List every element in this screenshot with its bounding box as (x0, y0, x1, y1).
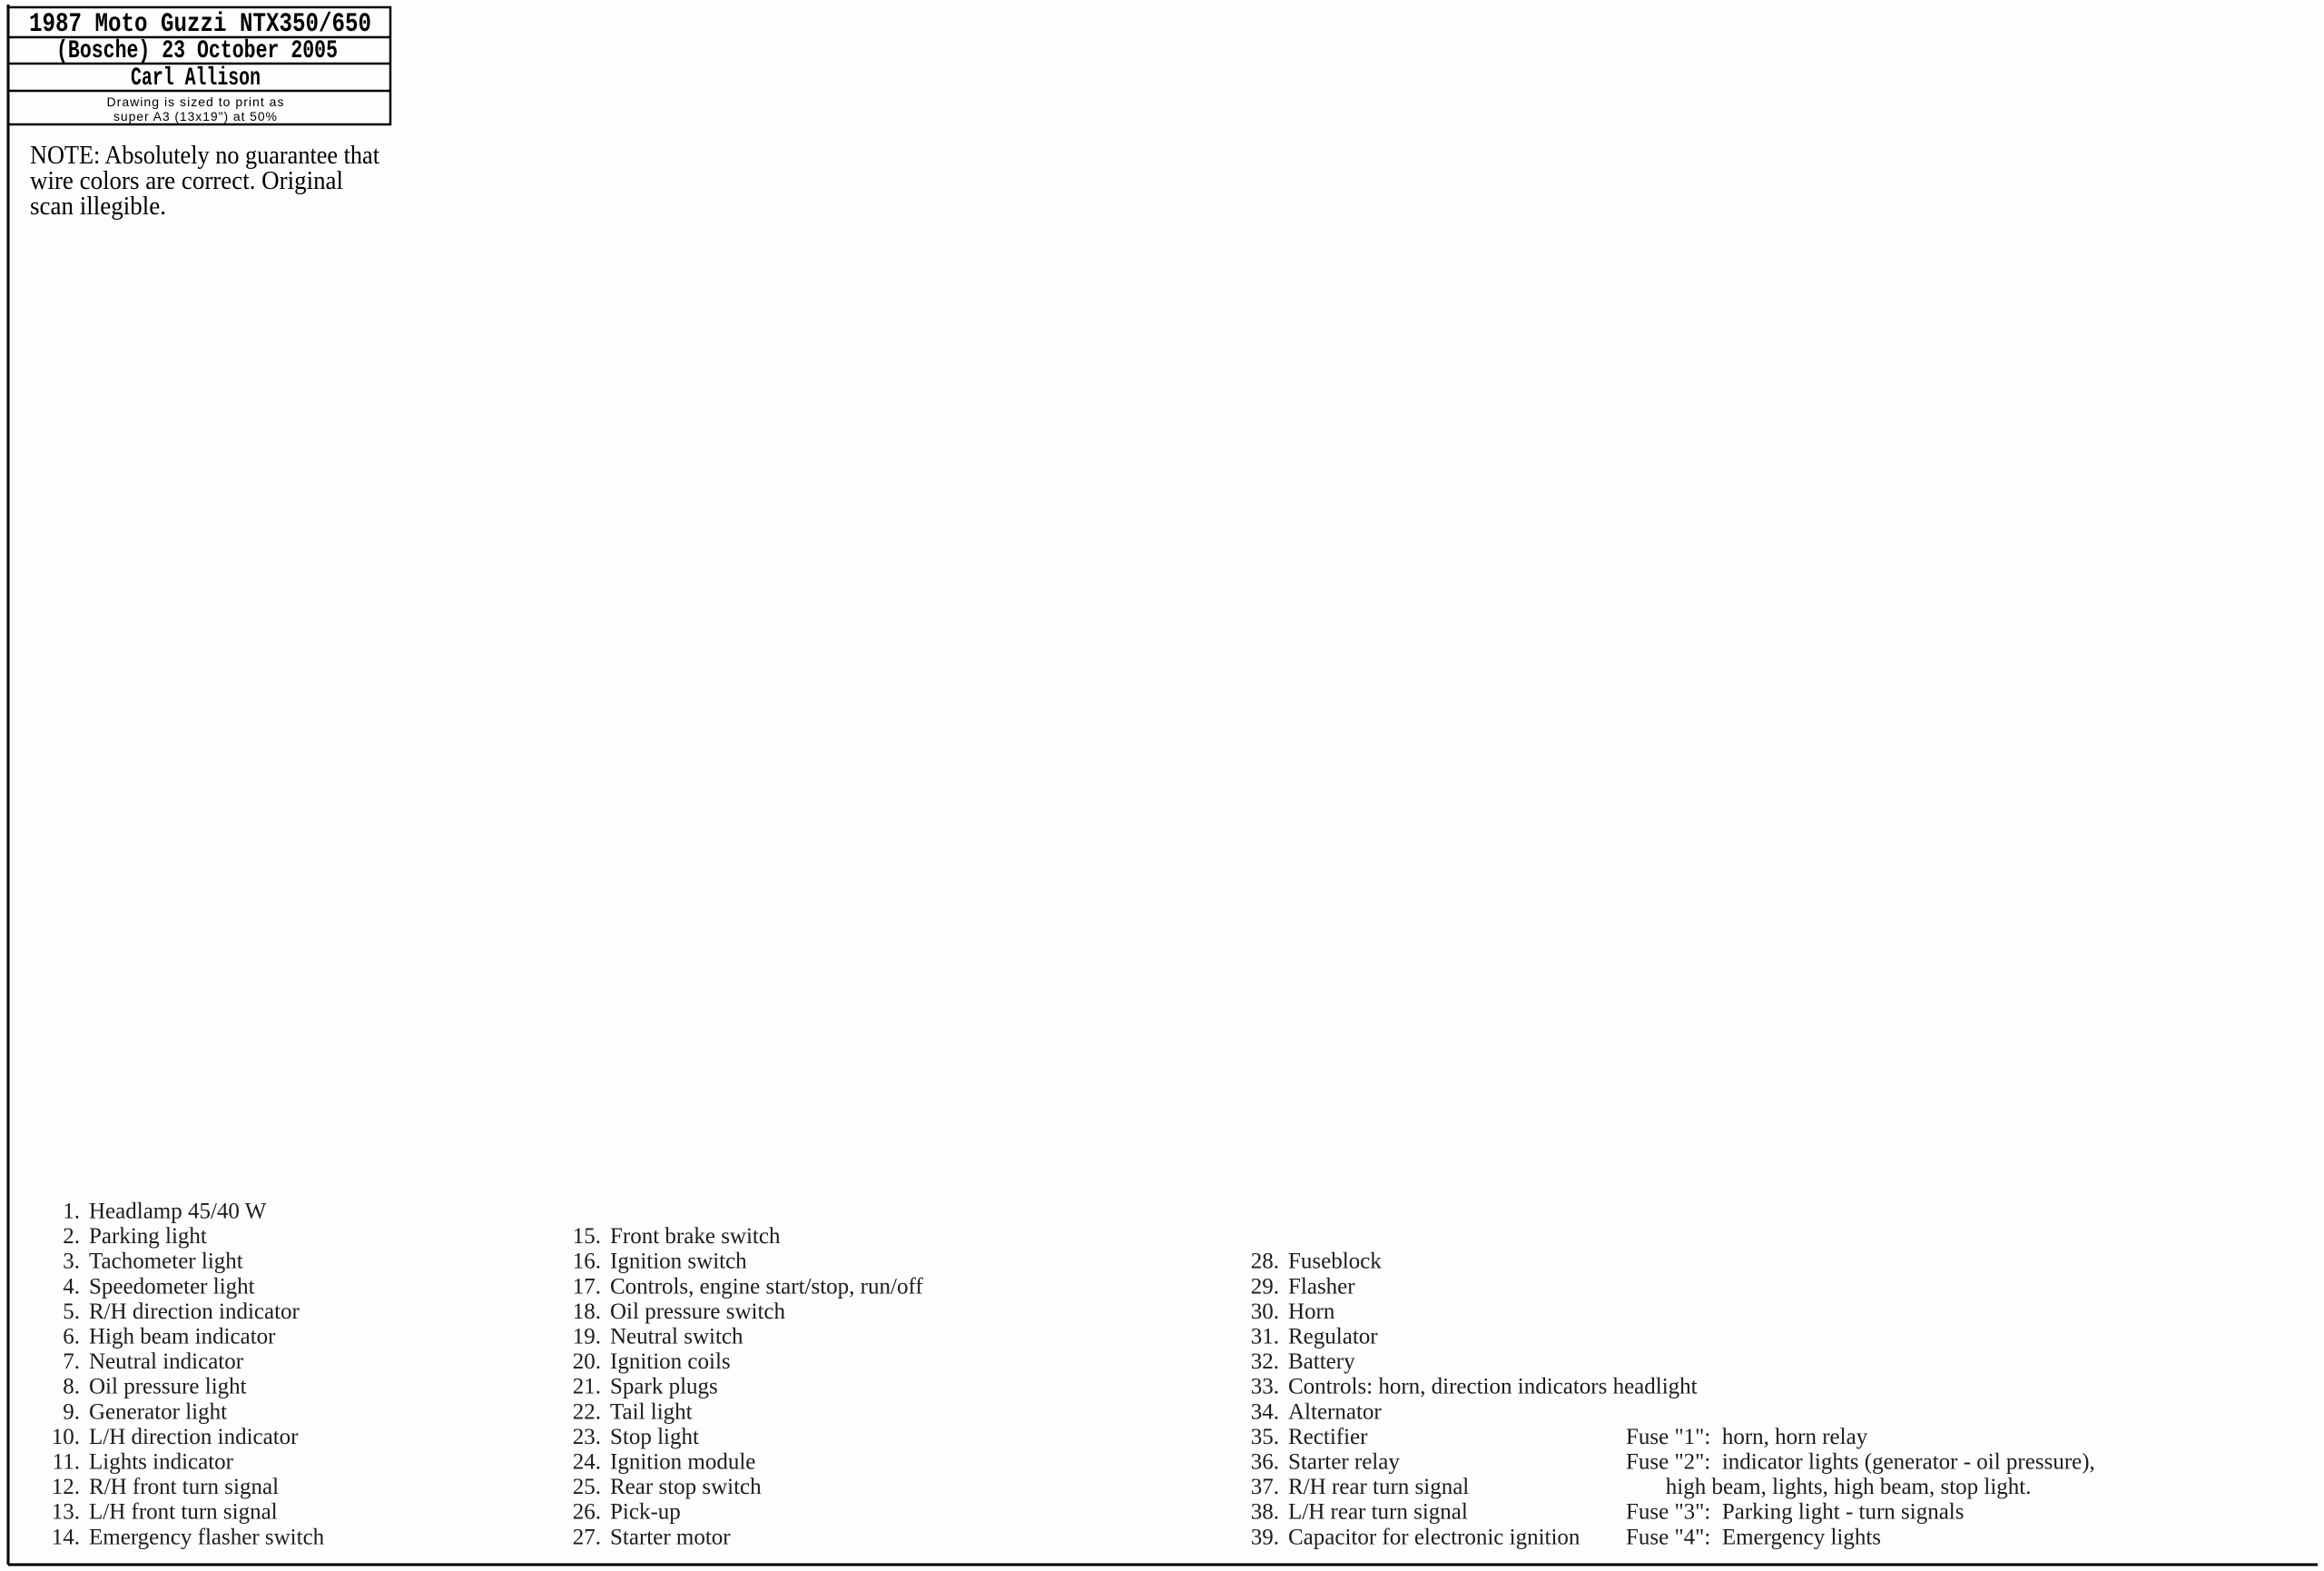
svg-text:Fuse "1": horn, horn relay: Fuse "1": horn, horn relay (1626, 1425, 1868, 1449)
svg-text:Drawing is sized to print as: Drawing is sized to print as (107, 94, 284, 109)
svg-text:Fuse "4": Emergency lights: Fuse "4": Emergency lights (1626, 1525, 1881, 1549)
svg-text:Oil pressure light: Oil pressure light (89, 1375, 247, 1399)
svg-text:1987 Moto Guzzi NTX350/650: 1987 Moto Guzzi NTX350/650 (29, 9, 371, 40)
svg-text:18.: 18. (573, 1299, 601, 1324)
svg-text:Alternator: Alternator (1288, 1399, 1382, 1424)
svg-text:Tachometer light: Tachometer light (89, 1250, 243, 1274)
svg-text:L/H direction indicator: L/H direction indicator (89, 1425, 299, 1449)
svg-text:Rear stop switch: Rear stop switch (610, 1475, 762, 1499)
svg-text:Carl Allison: Carl Allison (131, 64, 261, 93)
svg-text:19.: 19. (573, 1325, 601, 1349)
svg-text:Neutral switch: Neutral switch (610, 1325, 743, 1349)
svg-text:39.: 39. (1251, 1525, 1279, 1549)
svg-text:Controls: horn, direction indi: Controls: horn, direction indicators hea… (1288, 1375, 1698, 1399)
svg-text:4.: 4. (63, 1274, 80, 1299)
svg-text:Front brake switch: Front brake switch (610, 1224, 781, 1249)
svg-text:27.: 27. (573, 1525, 601, 1549)
svg-text:37.: 37. (1251, 1475, 1279, 1499)
svg-text:Capacitor for electronic ignit: Capacitor for electronic ignition (1288, 1525, 1581, 1549)
svg-text:Neutral indicator: Neutral indicator (89, 1349, 244, 1374)
svg-text:20.: 20. (573, 1349, 601, 1374)
svg-text:high beam, lights, high beam,: high beam, lights, high beam, stop light… (1626, 1475, 2032, 1499)
svg-text:Starter motor: Starter motor (610, 1525, 731, 1549)
svg-text:R/H front turn signal: R/H front turn signal (89, 1475, 279, 1499)
svg-text:Lights indicator: Lights indicator (89, 1450, 234, 1475)
svg-text:28.: 28. (1251, 1250, 1279, 1274)
svg-text:Battery: Battery (1288, 1349, 1355, 1374)
svg-text:6.: 6. (63, 1325, 80, 1349)
svg-text:10.: 10. (52, 1425, 80, 1449)
svg-text:Horn: Horn (1288, 1299, 1335, 1324)
svg-text:12.: 12. (52, 1475, 80, 1499)
svg-text:3.: 3. (63, 1250, 80, 1274)
svg-text:Ignition switch: Ignition switch (610, 1250, 747, 1274)
svg-text:High beam indicator: High beam indicator (89, 1325, 276, 1349)
svg-text:Rectifier: Rectifier (1288, 1425, 1368, 1449)
svg-text:1.: 1. (63, 1200, 80, 1224)
svg-text:Flasher: Flasher (1288, 1274, 1355, 1299)
svg-text:Stop light: Stop light (610, 1425, 699, 1449)
svg-text:super A3 (13x19") at 50%: super A3 (13x19") at 50% (113, 109, 277, 124)
svg-text:Tail light: Tail light (610, 1399, 693, 1424)
svg-text:35.: 35. (1251, 1425, 1279, 1449)
svg-text:Fuse "3": Parking light - tur: Fuse "3": Parking light - turn signals (1626, 1500, 1965, 1525)
svg-text:22.: 22. (573, 1399, 601, 1424)
svg-text:23.: 23. (573, 1425, 601, 1449)
svg-text:13.: 13. (52, 1500, 80, 1525)
svg-text:Emergency flasher switch: Emergency flasher switch (89, 1525, 325, 1549)
svg-text:11.: 11. (53, 1450, 80, 1475)
svg-text:Oil pressure switch: Oil pressure switch (610, 1299, 786, 1324)
svg-text:15.: 15. (573, 1224, 601, 1249)
svg-text:14.: 14. (52, 1525, 80, 1549)
svg-text:Pick-up: Pick-up (610, 1500, 681, 1525)
svg-text:2.: 2. (63, 1224, 80, 1249)
svg-text:L/H front turn signal: L/H front turn signal (89, 1500, 278, 1525)
svg-text:Fuseblock: Fuseblock (1288, 1250, 1382, 1274)
svg-text:scan illegible.: scan illegible. (30, 192, 166, 221)
svg-text:29.: 29. (1251, 1274, 1279, 1299)
svg-text:R/H rear turn signal: R/H rear turn signal (1288, 1475, 1469, 1499)
svg-text:5.: 5. (63, 1299, 80, 1324)
svg-text:32.: 32. (1251, 1349, 1279, 1374)
svg-text:34.: 34. (1251, 1399, 1279, 1424)
svg-text:Spark plugs: Spark plugs (610, 1375, 718, 1399)
svg-text:21.: 21. (573, 1375, 601, 1399)
svg-text:Ignition coils: Ignition coils (610, 1349, 731, 1374)
svg-text:Speedometer light: Speedometer light (89, 1274, 255, 1299)
svg-text:Ignition module: Ignition module (610, 1450, 755, 1475)
svg-text:Parking light: Parking light (89, 1224, 207, 1249)
svg-text:16.: 16. (573, 1250, 601, 1274)
svg-text:25.: 25. (573, 1475, 601, 1499)
svg-text:31.: 31. (1251, 1325, 1279, 1349)
svg-text:Headlamp 45/40 W: Headlamp 45/40 W (89, 1200, 267, 1224)
svg-text:17.: 17. (573, 1274, 601, 1299)
svg-text:8.: 8. (63, 1375, 80, 1399)
svg-text:L/H rear turn signal: L/H rear turn signal (1288, 1500, 1468, 1525)
svg-text:9.: 9. (63, 1399, 80, 1424)
svg-text:33.: 33. (1251, 1375, 1279, 1399)
svg-text:(Bosche) 23 October 2005: (Bosche) 23 October 2005 (56, 37, 338, 65)
svg-text:Starter relay: Starter relay (1288, 1450, 1400, 1475)
svg-text:Controls, engine start/stop, r: Controls, engine start/stop, run/off (610, 1274, 923, 1299)
svg-text:7.: 7. (63, 1349, 80, 1374)
svg-text:24.: 24. (573, 1450, 601, 1475)
svg-text:30.: 30. (1251, 1299, 1279, 1324)
svg-text:R/H direction indicator: R/H direction indicator (89, 1299, 300, 1324)
svg-text:38.: 38. (1251, 1500, 1279, 1525)
svg-text:Generator light: Generator light (89, 1399, 227, 1424)
svg-text:26.: 26. (573, 1500, 601, 1525)
svg-text:Fuse "2": indicator lights (g: Fuse "2": indicator lights (generator - … (1626, 1450, 2095, 1475)
svg-text:36.: 36. (1251, 1450, 1279, 1475)
svg-text:Regulator: Regulator (1288, 1325, 1378, 1349)
